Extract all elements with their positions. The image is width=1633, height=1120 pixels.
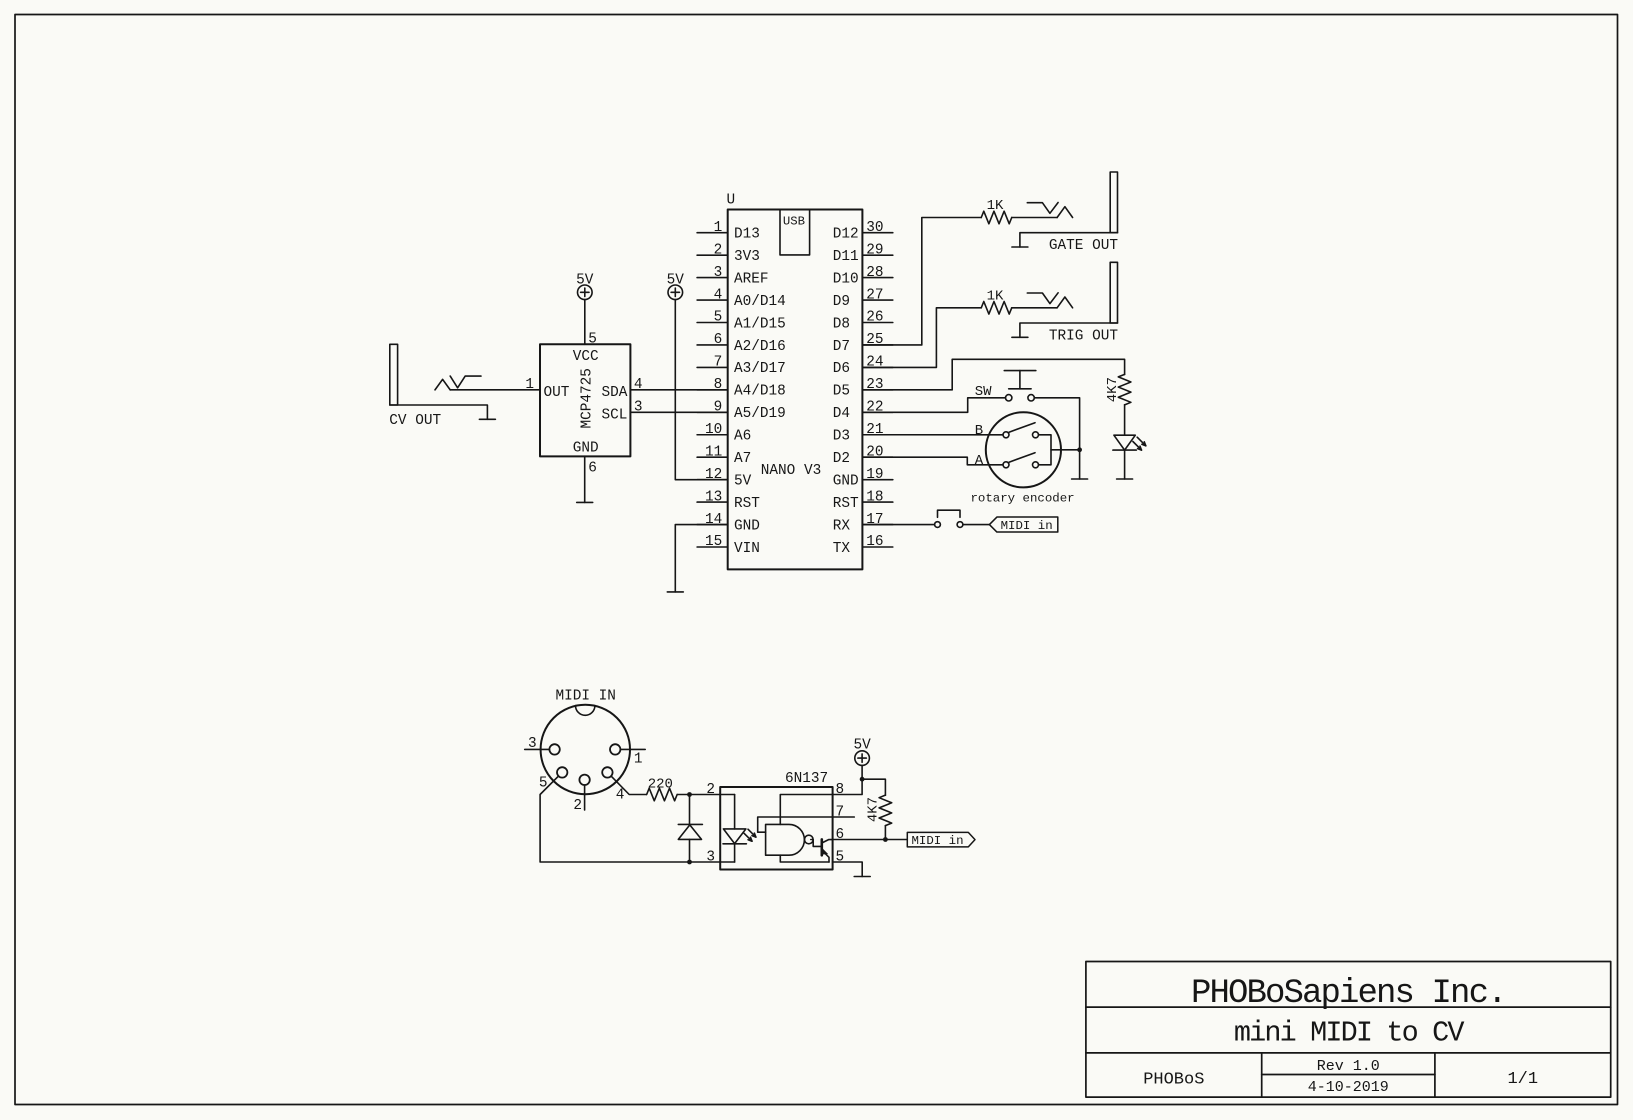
svg-text:U: U [727,193,736,209]
label TRIG OUT [1049,328,1118,344]
svg-text:D11: D11 [833,249,859,265]
diode D2 protection [678,795,702,863]
GATE jack switch contact [1027,203,1058,214]
wire DIN pin5 to opto pin3 [540,776,720,862]
DIN key notch [576,706,595,716]
svg-text:7: 7 [836,805,845,821]
svg-text:D9: D9 [833,294,850,310]
connector CV OUT jack body [390,344,398,405]
svg-text:RST: RST [833,496,859,512]
svg-text:VCC: VCC [573,349,599,365]
svg-text:24: 24 [866,355,883,371]
wire R3 to LED anode [1124,405,1126,436]
opto internal LED [720,795,756,863]
wire opto pin5 to ground [833,862,863,877]
svg-text:6N137: 6N137 [785,771,828,787]
svg-text:GND: GND [833,473,859,489]
svg-text:D13: D13 [734,227,760,243]
wire 5V to MCP VCC pin 5 [584,300,586,345]
svg-text:SCL: SCL [601,407,627,423]
junction R5 output [883,837,888,842]
svg-text:12: 12 [705,467,722,483]
svg-text:5: 5 [588,332,597,348]
svg-text:MIDI in: MIDI in [1001,519,1053,533]
global label MIDI in (output) [907,832,975,848]
svg-text:D2: D2 [833,451,850,467]
wire U pin21 D3 to encoder B [862,434,1003,436]
svg-text:GND: GND [573,441,599,457]
svg-text:MIDI in: MIDI in [912,834,964,848]
U pins 30-16 right stubs, numbers and names [833,220,893,557]
svg-text:4K7: 4K7 [866,797,882,822]
ground (opto pin5) [854,876,870,878]
svg-text:USB: USB [783,214,805,228]
svg-text:mini MIDI to CV: mini MIDI to CV [1234,1017,1465,1050]
junction diode top [687,792,692,797]
svg-text:D5: D5 [833,384,850,400]
svg-text:3: 3 [706,849,715,865]
svg-text:15: 15 [705,534,722,550]
label rotary encoder [971,491,1075,505]
DIN pin 1 [610,744,645,767]
svg-text:A3/D17: A3/D17 [734,361,786,377]
svg-text:GATE OUT: GATE OUT [1049,238,1118,254]
svg-text:D10: D10 [833,271,859,287]
svg-text:6: 6 [588,461,597,477]
svg-text:5V: 5V [853,738,871,754]
wire 5V node to R5 [862,779,885,795]
svg-text:26: 26 [866,310,883,326]
svg-text:A2/D16: A2/D16 [734,339,786,355]
DIN pin 2 [573,775,589,814]
svg-text:27: 27 [866,287,883,303]
svg-text:13: 13 [705,489,722,505]
svg-text:6: 6 [836,827,845,843]
opto internal VCC rail pin8 [780,795,832,825]
MCP4725 pin numbers [525,332,642,477]
CV jack switch contact [450,376,481,388]
svg-text:3: 3 [528,736,537,752]
svg-text:SW: SW [975,384,992,400]
svg-text:B: B [975,423,983,439]
wire DIN pin4 to R4 [611,776,646,794]
title name mini MIDI to CV [1234,1017,1465,1050]
svg-text:1: 1 [714,220,723,236]
wire U pin22 D4 to SW [862,398,1005,413]
svg-text:2: 2 [706,782,715,798]
opto internal gnd rail [780,855,829,862]
svg-text:5: 5 [836,850,845,866]
opto internal gate [766,824,814,855]
svg-text:2: 2 [714,242,723,258]
resistor R3 4K7 [1118,374,1131,405]
wire LED cathode to ground [1124,450,1126,479]
TRIG jack switch contact [1027,293,1058,304]
svg-text:OUT: OUT [544,385,570,401]
wire encoder common bracket [1039,435,1080,465]
label B [975,423,983,439]
encoder wiper A [1009,453,1035,463]
svg-text:VIN: VIN [734,541,760,557]
svg-text:3: 3 [714,265,723,281]
svg-text:D4: D4 [833,406,850,422]
svg-text:A7: A7 [734,451,751,467]
svg-text:7: 7 [714,355,723,371]
ground (U GND) [667,591,683,593]
label R4 value 220 [648,776,673,792]
svg-text:NANO V3: NANO V3 [761,463,821,479]
label R3 value 4K7 [1105,377,1121,402]
svg-text:D7: D7 [833,339,850,355]
svg-text:4: 4 [616,788,625,804]
power 5V symbol (MCP4725 VCC) [576,272,594,299]
svg-text:16: 16 [866,534,883,550]
IC U NANO V3 body [727,193,863,570]
wire TRIG jack sleeve to ground [1020,323,1118,337]
encoder contact circles [1003,432,1039,468]
opto internal transistor Q [811,839,833,862]
svg-text:29: 29 [866,242,883,258]
svg-text:1: 1 [525,377,534,393]
wire R5 to opto pin6 line [884,826,886,840]
svg-text:CV OUT: CV OUT [389,413,441,429]
DIN pin 3 [525,736,560,755]
resistor R5 4K7 [879,795,892,826]
wire U GND pin14 to ground [675,525,727,592]
wire R4 to opto pin2 [677,794,720,796]
wire SW to encoder common [1034,398,1079,450]
svg-text:rotary encoder: rotary encoder [971,491,1075,505]
svg-text:AREF: AREF [734,271,769,287]
svg-text:A: A [975,453,984,469]
label GATE OUT [1049,238,1118,254]
svg-text:RX: RX [833,518,851,534]
wire 5V to opto pin8 [833,765,863,794]
wire MCP GND pin 6 [584,456,586,502]
TRIG jack tip contact [1057,297,1073,308]
title block frame [1086,962,1611,1098]
wire SCL MCP pin3 to U pin9 [630,411,727,413]
svg-text:28: 28 [866,265,883,281]
ground (TRIG jack sleeve) [1012,336,1028,338]
svg-text:5: 5 [714,310,723,326]
IC U3 6N137 body [720,771,832,870]
ground (CV jack sleeve) [479,418,495,420]
opto internal enable pin7 [758,817,833,832]
ground (MCP4725 GND) [577,501,593,503]
svg-text:18: 18 [866,489,883,505]
LED D1 [1113,435,1146,450]
IC MCP4725 body [540,344,630,456]
wire opto pin6 to MIDI in label [833,839,908,841]
DIN pin 4 [602,767,624,803]
svg-text:MIDI IN: MIDI IN [555,688,615,704]
svg-text:D12: D12 [833,227,859,243]
svg-text:D6: D6 [833,361,850,377]
svg-text:3: 3 [634,400,643,416]
connector TRIG OUT jack body [1110,262,1117,323]
svg-text:11: 11 [705,444,722,460]
svg-text:PHOBoSapiens Inc.: PHOBoSapiens Inc. [1191,975,1506,1013]
svg-text:A5/D19: A5/D19 [734,406,786,422]
svg-text:1: 1 [634,751,643,767]
svg-text:6: 6 [714,332,723,348]
encoder wiper B [1009,423,1035,433]
resistor R1 1K [981,211,1012,224]
junction encoder common [1077,447,1082,452]
wire R2 to TRIG jack tip [1012,307,1057,309]
svg-text:220: 220 [648,776,673,792]
opto pin7 stub [833,816,855,818]
svg-text:5V: 5V [576,272,594,288]
svg-text:PHOBoS: PHOBoS [1143,1071,1204,1090]
wire jumper to MIDI in label [963,524,990,526]
svg-text:TX: TX [833,541,851,557]
wire SDA MCP pin4 to U pin8 [630,389,727,391]
svg-text:D8: D8 [833,316,850,332]
svg-text:5V: 5V [734,473,752,489]
svg-text:19: 19 [866,467,883,483]
opto pin numbers [706,782,844,866]
label MIDI IN [555,688,615,704]
svg-text:MCP4725: MCP4725 [580,368,596,428]
wire U pin20 D2 to encoder A [862,457,1003,465]
svg-text:1K: 1K [987,289,1004,305]
GATE jack tip contact [1057,207,1073,218]
svg-text:Rev 1.0: Rev 1.0 [1317,1058,1380,1075]
CV jack tip contact [435,379,450,390]
svg-text:4K7: 4K7 [1105,377,1121,402]
svg-text:RST: RST [734,496,760,512]
title rev Rev 1.0 [1317,1058,1380,1075]
wire encoder common to ground [1079,450,1081,479]
junction 5V node [860,777,865,782]
power 5V symbol (U 5V pin) [667,272,685,299]
ground (GATE jack sleeve) [1012,246,1028,248]
wire MCP OUT to CV jack tip [450,389,540,391]
rotary encoder body circle [986,412,1061,487]
svg-text:A1/D15: A1/D15 [734,316,786,332]
resistor R4 220 [647,788,678,801]
svg-text:GND: GND [734,518,760,534]
wire U pin25 D7 to R1 [862,218,981,345]
svg-text:4: 4 [714,287,723,303]
svg-text:9: 9 [714,400,723,416]
svg-text:1/1: 1/1 [1507,1070,1538,1089]
title sheet 1/1 [1507,1070,1538,1089]
svg-text:10: 10 [705,422,722,438]
wire CV jack sleeve to ground [390,405,488,419]
label A [975,453,984,469]
title company PHOBoSapiens Inc. [1191,975,1506,1013]
DIN pin 5 [539,767,568,791]
ground (LED cathode) [1117,478,1133,480]
svg-text:5V: 5V [667,272,685,288]
svg-text:2: 2 [573,798,582,814]
label CV OUT [389,413,441,429]
svg-text:A6: A6 [734,429,751,445]
global label MIDI in (input) [989,517,1057,533]
svg-text:A4/D18: A4/D18 [734,384,786,400]
svg-text:1K: 1K [987,198,1004,214]
power 5V symbol (opto VCC) [853,738,871,766]
svg-text:3V3: 3V3 [734,249,760,265]
U pins 1-15 left stubs, numbers and names [697,220,786,557]
svg-text:8: 8 [836,782,845,798]
svg-text:22: 22 [866,400,883,416]
resistor R2 1K [981,302,1012,315]
svg-text:A0/D14: A0/D14 [734,294,786,310]
wire 5V to U pin12 [675,300,727,480]
title date 4-10-2019 [1308,1079,1389,1096]
wire U pin23 D5 to R3 [862,359,1124,390]
junction diode bottom [687,860,692,865]
svg-text:30: 30 [866,220,883,236]
connector J1 MIDI IN DIN-5 circle [541,705,630,794]
svg-text:D3: D3 [833,429,850,445]
svg-text:SDA: SDA [601,385,627,401]
switch SW push button [1004,371,1036,401]
label R2 value 1K [987,289,1004,305]
connector GATE OUT jack body [1110,172,1117,233]
wire U pin24 D6 to R2 [862,308,981,368]
ground (encoder common) [1072,478,1088,480]
jumper JP1 [935,510,963,527]
label R5 value 4K7 [866,797,882,822]
svg-text:TRIG OUT: TRIG OUT [1049,328,1118,344]
wire U pin17 RX to jumper [862,524,934,526]
svg-text:4-10-2019: 4-10-2019 [1308,1079,1389,1096]
svg-text:4: 4 [634,377,643,393]
label R1 value 1K [987,198,1004,214]
title author PHOBoS [1143,1071,1204,1090]
wire GATE jack sleeve to ground [1020,233,1118,247]
label SW [975,384,992,400]
wire R1 to GATE jack tip [1012,217,1057,219]
